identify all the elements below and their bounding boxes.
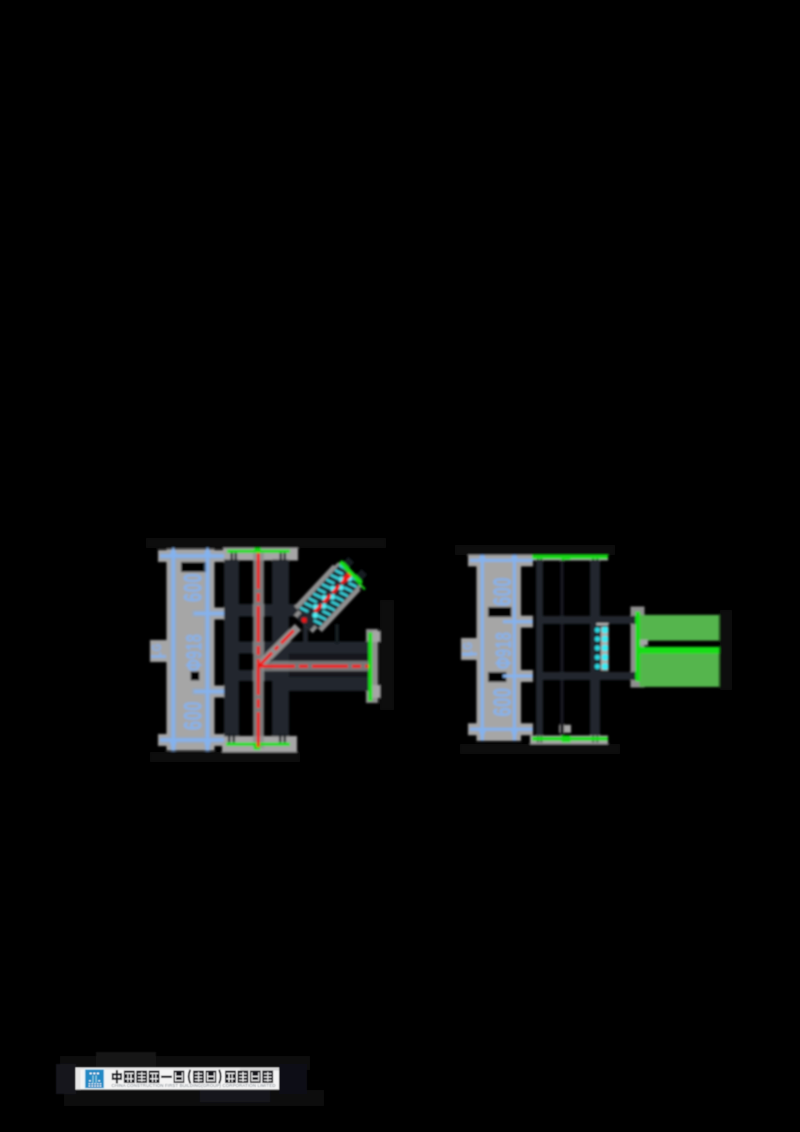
svg-text:600: 600 — [490, 577, 517, 606]
svg-text:Φ918: Φ918 — [491, 632, 516, 669]
svg-text:600: 600 — [180, 573, 207, 602]
svg-text:600: 600 — [490, 687, 517, 716]
svg-text:Φ918: Φ918 — [182, 634, 207, 671]
svg-text:CHINA CONSTRUCTION FIRST BUILD: CHINA CONSTRUCTION FIRST BUILDING(GROUP)… — [112, 1083, 276, 1088]
svg-text:600: 600 — [180, 701, 207, 730]
